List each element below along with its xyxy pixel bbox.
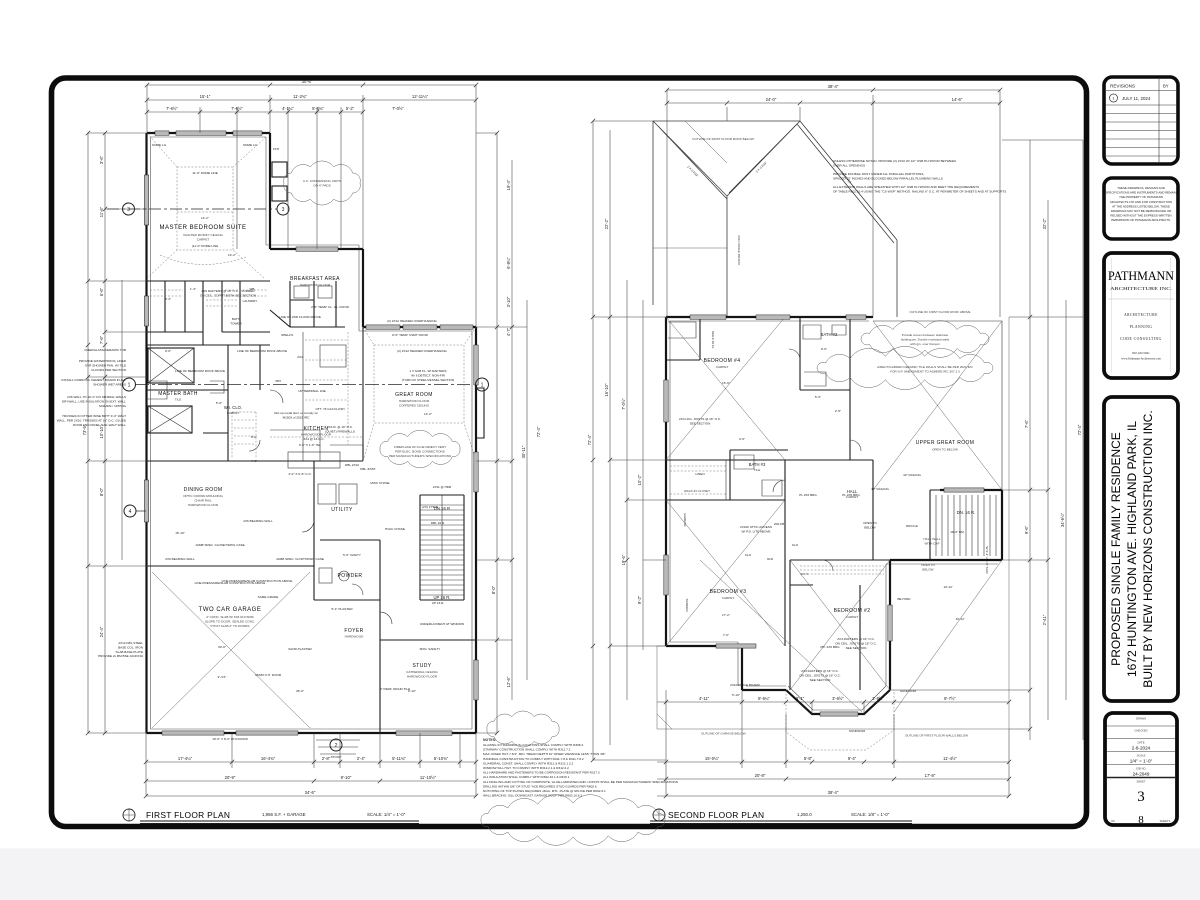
- partition foyer right study left: [379, 540, 381, 733]
- svg-text:FIRST FLOOR PLAN: FIRST FLOOR PLAN: [146, 810, 230, 820]
- svg-text:COFFERED CEILING: COFFERED CEILING: [399, 404, 430, 408]
- svg-text:14'-2": 14'-2": [424, 412, 432, 416]
- svg-text:JAMB SPEC. CLOSET/DWG CASE: JAMB SPEC. CLOSET/DWG CASE: [195, 543, 244, 547]
- svg-text:OUTLINE OF FIRST FLOOR ROOF BE: OUTLINE OF FIRST FLOOR ROOF BELOW: [692, 137, 754, 141]
- svg-text:3: 3: [282, 207, 285, 213]
- svg-text:WINDOW SILL HGT. TO COMPLY WIT: WINDOW SILL HGT. TO COMPLY WITH R312.2.1…: [483, 766, 569, 770]
- svg-text:9'-10": 9'-10": [341, 775, 352, 780]
- svg-text:UP 16 R.: UP 16 R.: [434, 595, 451, 600]
- svg-text:DBL 16 R.: DBL 16 R.: [431, 521, 445, 525]
- svg-text:WALK IN CL: WALK IN CL: [711, 331, 715, 349]
- svg-text:SUNROOM: SUNROOM: [849, 729, 866, 733]
- svg-text:FFH: FFH: [273, 147, 279, 151]
- svg-text:11'-6": 11'-6": [99, 206, 104, 217]
- svg-text:STOOP: STOOP: [331, 755, 342, 759]
- svg-text:with grs. over thereon: with grs. over thereon: [910, 342, 940, 346]
- svg-text:8'-0": 8'-0": [251, 435, 257, 439]
- svg-text:BATH #2: BATH #2: [821, 332, 838, 337]
- svg-text:30'-6": 30'-6": [302, 79, 313, 84]
- partition garage top: [147, 565, 315, 567]
- stair treads dn: [936, 495, 996, 556]
- svg-text:4'-1¼": 4'-1¼": [282, 106, 294, 111]
- svg-text:HALF WALL: HALF WALL: [923, 537, 940, 541]
- svg-text:72'-4": 72'-4": [587, 434, 592, 445]
- svg-text:8'-6¼": 8'-6¼": [758, 696, 770, 701]
- svg-text:WALK-IN CLOSET: WALK-IN CLOSET: [684, 489, 710, 493]
- svg-text:7'-0½": 7'-0½": [621, 398, 626, 410]
- svg-text:5'-2": 5'-2": [346, 106, 355, 111]
- svg-text:TILE: TILE: [754, 468, 761, 472]
- svg-text:24-2049: 24-2049: [1133, 772, 1150, 777]
- svg-text:19'-4": 19'-4": [506, 179, 511, 190]
- dims left: [587, 121, 666, 760]
- svg-text:BATH #3: BATH #3: [749, 462, 766, 467]
- svg-text:(2) 2X12 HEADER OVERHANGING: (2) 2X12 HEADER OVERHANGING: [387, 319, 437, 323]
- svg-text:UNLESS OTHERWISE NOTED, PROVID: UNLESS OTHERWISE NOTED, PROVIDE (2) 2X10…: [833, 159, 956, 163]
- svg-text:(TURN 2X STEEL/VESSEL SECTION: (TURN 2X STEEL/VESSEL SECTION: [402, 378, 454, 382]
- svg-text:SAME GRADE: SAME GRADE: [258, 595, 279, 599]
- svg-text:OF TABLE R602.10.4 USING THE ": OF TABLE R602.10.4 USING THE "CS-WSP" ME…: [833, 190, 1006, 194]
- svg-text:2X4 RAFTERS @ 16" O.C.: 2X4 RAFTERS @ 16" O.C.: [801, 669, 839, 673]
- svg-text:2X6 RAFTERS @ 16" O.C. - FURRE: 2X6 RAFTERS @ 16" O.C. - FURRED: [201, 289, 255, 293]
- architect logo box: [1104, 253, 1178, 378]
- section marker 4: [124, 505, 146, 517]
- svg-text:20'-8": 20'-8": [755, 773, 766, 778]
- svg-text:OPEN TO BELOW: OPEN TO BELOW: [932, 448, 958, 452]
- svg-text:WB: WB: [250, 287, 255, 291]
- svg-text:SPACED 12" INCHES AND BLOCKED: SPACED 12" INCHES AND BLOCKED BELOW PARA…: [833, 177, 943, 181]
- svg-text:SCREEN: SCREEN: [685, 599, 689, 612]
- svg-text:BELOW: BELOW: [922, 567, 933, 571]
- exterior wall right: [475, 327, 477, 733]
- great room coffered dashed: [363, 327, 476, 461]
- svg-text:PLANNING: PLANNING: [1130, 325, 1153, 329]
- svg-text:PROVIDE WATERPROOF, LINED: PROVIDE WATERPROOF, LINED: [79, 359, 127, 363]
- svg-text:SLOPE TO DOOR, SEALED CONC.: SLOPE TO DOOR, SEALED CONC.: [205, 619, 255, 623]
- svg-text:ON CEIL. JOISTS @ 16" O.C.: ON CEIL. JOISTS @ 16" O.C.: [799, 673, 841, 677]
- svg-text:ALL HARDWARE AND FASTENERS TO: ALL HARDWARE AND FASTENERS TO BE CORROSI…: [483, 771, 600, 775]
- svg-text:SUNROOM: SUNROOM: [900, 689, 917, 693]
- door arcs: [249, 390, 392, 624]
- svg-text:24'-0": 24'-0": [766, 97, 777, 102]
- svg-text:11'-2¾": 11'-2¾": [293, 94, 307, 99]
- svg-text:OUTLINE OF GARAGE BELOW: OUTLINE OF GARAGE BELOW: [701, 732, 746, 736]
- svg-text:CATHEDRAL CEILING: CATHEDRAL CEILING: [406, 670, 438, 674]
- svg-text:SOME LG: SOME LG: [152, 143, 167, 147]
- svg-text:3'-10": 3'-10": [506, 296, 511, 307]
- svg-text:1,956 S.F. + GARAGE: 1,956 S.F. + GARAGE: [262, 812, 306, 817]
- svg-text:8'-0": 8'-0": [99, 487, 104, 496]
- svg-text:ALL EXTERIOR WALLS ARE SHEATHE: ALL EXTERIOR WALLS ARE SHEATHED WITH 1/2…: [833, 185, 979, 189]
- bath fixtures: [803, 325, 846, 386]
- copyright note box: [1104, 178, 1178, 239]
- svg-text:10'-10": 10'-10": [99, 425, 104, 439]
- partition master bath top: [147, 345, 270, 390]
- svg-text:3'-1": 3'-1": [796, 696, 805, 701]
- svg-text:38'-4": 38'-4": [828, 84, 839, 89]
- svg-text:holding per. Dundie municipal: holding per. Dundie municipal walls: [901, 337, 950, 341]
- svg-text:UTILITY: UTILITY: [331, 507, 353, 513]
- svg-text:BUILT BY NEW HORIZONS CONSTRUC: BUILT BY NEW HORIZONS CONSTRUCTION INC.: [1141, 410, 1155, 687]
- svg-text:17'-4¼": 17'-4¼": [178, 756, 193, 761]
- svg-text:9'-4.5": 9'-4.5": [218, 675, 227, 679]
- svg-text:NOTES:: NOTES:: [483, 738, 496, 742]
- svg-text:9'-0": 9'-0": [165, 349, 171, 353]
- exterior wall bottom: [147, 732, 477, 734]
- svg-text:3'-0" X 1'-6" ISL.: 3'-0" X 1'-6" ISL.: [299, 443, 322, 447]
- svg-text:EGRESS: EGRESS: [683, 514, 687, 527]
- svg-text:MXD. SAFETY: MXD. SAFETY: [420, 647, 441, 651]
- kitchen island: [288, 452, 340, 468]
- svg-text:SCALE: 1/4" = 1'-0": SCALE: 1/4" = 1'-0": [367, 812, 406, 817]
- revisions table: [1104, 77, 1178, 164]
- svg-text:10'-12': 10'-12': [955, 617, 965, 621]
- svg-text:BREAKFAST AREA: BREAKFAST AREA: [290, 276, 340, 282]
- svg-text:5'-10": 5'-10": [732, 693, 740, 697]
- bottom bay outline dashed: [786, 690, 894, 750]
- dims bottom: [657, 690, 1009, 796]
- svg-text:72'-4": 72'-4": [1077, 424, 1082, 435]
- dims top: [667, 84, 1000, 317]
- svg-text:BELOW: BELOW: [864, 525, 875, 529]
- svg-text:GLAZING IN HAZARDOUS LOCATIONS: GLAZING IN HAZARDOUS LOCATIONS SHALL COM…: [483, 743, 583, 747]
- dimension tick marks: [86, 83, 1050, 798]
- svg-text:UP 16 R.: UP 16 R.: [432, 601, 445, 605]
- exterior wall left: [145, 133, 147, 733]
- svg-text:30'-11": 30'-11": [521, 445, 526, 458]
- leader notes right of bath: [679, 331, 989, 733]
- svg-text:2X10 RIDGE BOARD: 2X10 RIDGE BOARD: [730, 683, 761, 687]
- front door + stoop: [322, 732, 354, 734]
- svg-text:22'-2": 22'-2": [604, 218, 609, 229]
- svg-text:A/RECT/GARDEN CERAMIC TILE WAL: A/RECT/GARDEN CERAMIC TILE WALLS SHALL B…: [877, 365, 974, 369]
- svg-text:2X10F ATTIC ACCESS: 2X10F ATTIC ACCESS: [740, 525, 772, 529]
- svg-text:PROVIDE 2L BM BSE JACKING: PROVIDE 2L BM BSE JACKING: [98, 654, 144, 658]
- stair treads: [420, 505, 464, 595]
- svg-text:LINEN: LINEN: [695, 472, 704, 476]
- svg-text:PITCH SLAB 2" TO DOORS: PITCH SLAB 2" TO DOORS: [211, 624, 250, 628]
- garage doors: [162, 731, 224, 735]
- inner wall line: [670, 321, 998, 710]
- svg-text:NOTCHING OF TOP PLATES REQUIRE: NOTCHING OF TOP PLATES REQUIRES 16GA. MT…: [483, 789, 606, 793]
- svg-text:10'-12': 10'-12': [943, 585, 953, 589]
- svg-text:6'-8¼": 6'-8¼": [506, 257, 511, 269]
- kitchen counters: [270, 332, 363, 461]
- margin note garage left: [98, 641, 144, 658]
- svg-text:CARPET: CARPET: [716, 365, 729, 369]
- svg-text:LAUNDRY: LAUNDRY: [243, 299, 258, 303]
- svg-text:24'-4": 24'-4": [99, 626, 104, 637]
- svg-text:DRAWN: DRAWN: [1136, 717, 1146, 721]
- svg-text:2: 2: [335, 743, 338, 749]
- svg-text:9'-6": 9'-6": [1024, 525, 1029, 534]
- svg-text:18'-0" BM: 18'-0" BM: [950, 530, 964, 534]
- svg-text:200-FB: 200-FB: [774, 522, 784, 526]
- svg-text:BASE COL. IRON: BASE COL. IRON: [118, 645, 143, 649]
- svg-text:2X6 WALL TO 10'-0" FIX MINIMAL: 2X6 WALL TO 10'-0" FIX MINIMAL WALLS: [67, 395, 126, 399]
- svg-text:7'-6": 7'-6": [1024, 419, 1029, 428]
- svg-text:GUARDRAIL CONST. SHALL COMPLY: GUARDRAIL CONST. SHALL COMPLY WITH R312 …: [483, 761, 574, 765]
- svg-text:INSTALL DURROCK CEMENT BOARD I: INSTALL DURROCK CEMENT BOARD IN ALL: [61, 378, 126, 382]
- svg-text:ON 4" PADS: ON 4" PADS: [313, 183, 330, 187]
- svg-text:FIREPLACE W/ FLUE DIRECT VENT: FIREPLACE W/ FLUE DIRECT VENT: [394, 445, 446, 449]
- svg-text:DRYWALL, USE INSULATION ON EXT: DRYWALL, USE INSULATION ON EXT. WALL: [62, 399, 126, 403]
- svg-text:8'-0": 8'-0": [491, 585, 496, 594]
- svg-text:14'-2": 14'-2": [201, 216, 209, 220]
- svg-text:38'-4": 38'-4": [828, 790, 839, 795]
- margin notes left: [57, 348, 127, 427]
- svg-text:UP TERMINAL LNE: UP TERMINAL LNE: [298, 389, 325, 393]
- svg-text:ALL INSULATION SHALL COMPLY WI: ALL INSULATION SHALL COMPLY WITH R302.10…: [483, 775, 570, 779]
- svg-text:STUDY: STUDY: [413, 663, 432, 669]
- svg-text:10'-0" X 8'-0" OH DOORS: 10'-0" X 8'-0" OH DOORS: [212, 737, 248, 741]
- svg-text:(2) 2X12 HEADER OVERHANGING: (2) 2X12 HEADER OVERHANGING: [397, 349, 447, 353]
- svg-text:REUSED WITHOUT THE EXPRESS WRI: REUSED WITHOUT THE EXPRESS WRITTEN: [1110, 214, 1171, 218]
- svg-text:FOR H.P. AMENDMENT TO ADHERE I: FOR H.P. AMENDMENT TO ADHERE IRC 307.2.3: [890, 369, 960, 373]
- svg-text:4'-6": 4'-6": [739, 437, 745, 441]
- svg-text:HARDWOOD FLOOR: HARDWOOD FLOOR: [300, 283, 331, 287]
- svg-text:CARPET: CARPET: [227, 411, 240, 415]
- svg-text:2X4 R. @ 16" O.C.: 2X4 R. @ 16" O.C.: [327, 425, 353, 429]
- svg-text:2X6 BEARING WALL: 2X6 BEARING WALL: [165, 557, 195, 561]
- svg-text:DBL JOIST: DBL JOIST: [360, 467, 376, 471]
- svg-text:JOB NO.: JOB NO.: [1136, 767, 1147, 771]
- svg-text:3'-6": 3'-6": [99, 155, 104, 164]
- svg-text:4: 4: [129, 509, 132, 515]
- svg-text:CARPET: CARPET: [722, 596, 735, 600]
- utility appliances: [318, 484, 336, 504]
- svg-text:1 X SUB FL. W/ RAFTERS: 1 X SUB FL. W/ RAFTERS: [409, 369, 446, 373]
- svg-text:34'-6½": 34'-6½": [1060, 512, 1065, 527]
- svg-text:9'-2": 9'-2": [637, 595, 642, 604]
- svg-text:ALL DRILLING AND CUTTING OF CO: ALL DRILLING AND CUTTING OF COMPOSITE, G…: [483, 780, 678, 784]
- svg-text:UNDERLAYMENT AT WINDOW: UNDERLAYMENT AT WINDOW: [420, 622, 464, 626]
- exterior wall breakfast top: [270, 248, 363, 250]
- dimension lines left: [82, 133, 147, 733]
- svg-text:OVR SHOWER PAN. W/ TILE: OVR SHOWER PAN. W/ TILE: [85, 363, 126, 367]
- exterior wall great room top: [363, 326, 476, 328]
- first floor plan title: [123, 809, 419, 823]
- svg-text:36H: 36H: [275, 379, 281, 383]
- svg-text:A.C. CONDENSING UNITS: A.C. CONDENSING UNITS: [303, 179, 341, 183]
- laundry chute small rooms: [290, 281, 345, 327]
- partition kitchen/greatroom: [362, 327, 364, 461]
- svg-text:4" CONC. SLAB W/ 6X6 #10 WWF: 4" CONC. SLAB W/ 6X6 #10 WWF: [206, 615, 254, 619]
- svg-text:2X11 @ HDR: 2X11 @ HDR: [433, 485, 452, 489]
- svg-text:CLO: CLO: [792, 543, 799, 547]
- svg-text:MAX. RISER HGT 7 3/4", MIN. TR: MAX. RISER HGT 7 3/4", MIN. TREAD DEPTH …: [483, 752, 606, 756]
- svg-text:OLD: OLD: [767, 557, 774, 561]
- svg-text:15'-10": 15'-10": [175, 531, 185, 535]
- master tray ceiling dashed: [147, 133, 266, 278]
- powder fixtures: [319, 568, 332, 583]
- svg-text:7'-6": 7'-6": [99, 335, 104, 344]
- exterior wall top master suite: [147, 132, 270, 134]
- svg-text:SHELFS: SHELFS: [281, 333, 293, 337]
- exterior walls: [666, 316, 873, 318]
- svg-text:5'-0": 5'-0": [815, 395, 821, 399]
- svg-text:ON CEIL. SOFFIT BOTH SEE SECTI: ON CEIL. SOFFIT BOTH SEE SECTION: [200, 293, 256, 297]
- svg-text:4'-11": 4'-11": [699, 696, 710, 701]
- upper great room floor-edge thin rect: [873, 321, 1002, 490]
- roof hip long diagonal: [797, 121, 897, 317]
- svg-text:42" RAILING: 42" RAILING: [903, 473, 921, 477]
- svg-text:42" RAILING: 42" RAILING: [871, 487, 889, 491]
- svg-text:W 9'-4" x 6'-8" SLID: W 9'-4" x 6'-8" SLID: [985, 546, 989, 574]
- svg-text:1672 HUNTINGTON AVE. HIGHLAND: 1672 HUNTINGTON AVE. HIGHLAND PARK, IL: [1125, 421, 1139, 677]
- svg-text:2X4 @ 16 O.C.: 2X4 @ 16 O.C.: [303, 437, 324, 441]
- svg-text:WALL BRACING: SILL-DOWNCAST GA: WALL BRACING: SILL-DOWNCAST GARAGE DOOF …: [483, 794, 582, 798]
- svg-text:BEDROOM #2: BEDROOM #2: [834, 608, 871, 614]
- svg-text:3'-8½": 3'-8½": [872, 696, 884, 701]
- svg-text:www.Pathmann-Architecture.com: www.Pathmann-Architecture.com: [1121, 357, 1161, 361]
- svg-text:CODE CONSULTING: CODE CONSULTING: [1120, 337, 1162, 341]
- svg-text:TRUSSES IN OTHER WISE BUTT 4'-: TRUSSES IN OTHER WISE BUTT 4'-0" WALT: [62, 414, 126, 418]
- svg-text:PROPOSED SINGLE FAMILY RESIDEN: PROPOSED SINGLE FAMILY RESIDENCE: [1109, 432, 1123, 666]
- door arcs: [773, 349, 861, 571]
- pantry angle: [270, 310, 290, 327]
- svg-text:5'-10¾": 5'-10¾": [434, 756, 449, 761]
- svg-text:5'-11¾": 5'-11¾": [392, 756, 406, 761]
- svg-text:5'-9": 5'-9": [216, 401, 222, 405]
- svg-text:1: 1: [128, 383, 131, 389]
- svg-text:3'-0" X 6'-8" C.O.: 3'-0" X 6'-8" C.O.: [288, 472, 311, 476]
- outline of first floor walls below (right): [657, 317, 1009, 729]
- svg-text:TOWER: TOWER: [230, 321, 242, 325]
- svg-text:2X4: 2X4: [297, 355, 303, 359]
- svg-text:SAND PLASTER: SAND PLASTER: [288, 647, 312, 651]
- svg-text:JULY 11, 2024: JULY 11, 2024: [1122, 96, 1151, 101]
- stair rail: [441, 495, 443, 600]
- svg-text:4" PERF. DRAIN TILE: 4" PERF. DRAIN TILE: [380, 687, 410, 691]
- svg-text:2X4 RAFTERS @ 16" O.C.: 2X4 RAFTERS @ 16" O.C.: [837, 637, 875, 641]
- partition dining top: [147, 460, 364, 462]
- dimension lines bottom: [146, 733, 476, 796]
- svg-text:(2X) 2 HDR: (2X) 2 HDR: [422, 505, 439, 509]
- section markers 3: [107, 203, 289, 215]
- svg-text:HARDWOOD: HARDWOOD: [345, 635, 364, 639]
- sheet data box: [1105, 713, 1177, 826]
- svg-text:DRAWINGS MAY NOT BE REPRODUCED: DRAWINGS MAY NOT BE REPRODUCED OR: [1111, 209, 1172, 213]
- svg-text:SEE SECTION: SEE SECTION: [846, 646, 867, 650]
- framing notes top right: [833, 159, 1006, 194]
- svg-text:FOYER: FOYER: [344, 628, 363, 634]
- inner wall lines (double-line look): [151, 137, 473, 729]
- svg-text:WALL, PER 2X10. TRUSSES AT 16": WALL, PER 2X10. TRUSSES AT 16" O.C. GLUE…: [57, 418, 127, 422]
- svg-text:AT THE ADDRESS LISTED BELOW. T: AT THE ADDRESS LISTED BELOW. THESE: [1112, 204, 1170, 208]
- svg-text:14'-6": 14'-6": [952, 97, 963, 102]
- dimension lines right: [476, 133, 541, 733]
- dimension lines top: [147, 79, 476, 327]
- svg-text:1: 1: [481, 383, 484, 389]
- svg-text:POWDER: POWDER: [338, 573, 363, 579]
- svg-text:ARCHITECTURE: ARCHITECTURE: [1124, 313, 1158, 317]
- svg-text:2'-4": 2'-4": [357, 756, 366, 761]
- svg-text:OUTLINE OF FIRST FLOOR ROOF AB: OUTLINE OF FIRST FLOOR ROOF ABOVE: [910, 310, 971, 314]
- svg-text:CARPET: CARPET: [846, 615, 859, 619]
- svg-text:16'-10": 16'-10": [604, 383, 609, 397]
- roof hip V lines: [653, 121, 800, 317]
- svg-text:11'-4½": 11'-4½": [943, 756, 957, 761]
- kitchen cabinets dashed: [270, 332, 363, 445]
- svg-text:19'-6": 19'-6": [621, 554, 626, 565]
- svg-text:LINE PRESSURE/SLAB CONSTRUCTIO: LINE PRESSURE/SLAB CONSTRUCTION ABOVE: [195, 581, 266, 585]
- svg-text:16'-6": 16'-6": [722, 381, 730, 385]
- svg-text:9'-4": 9'-4": [848, 756, 857, 761]
- svg-text:THESE DRAWINGS, DESIGNS AND: THESE DRAWINGS, DESIGNS AND: [1117, 186, 1165, 190]
- svg-text:OPTIC CROWN MOULDING: OPTIC CROWN MOULDING: [183, 494, 223, 498]
- svg-text:12'-11¼": 12'-11¼": [412, 94, 429, 99]
- svg-text:PR. 2X6 BRG: PR. 2X6 BRG: [820, 645, 840, 649]
- windows: [233, 131, 262, 135]
- svg-text:11'-10½": 11'-10½": [420, 775, 437, 780]
- svg-text:BY: BY: [1163, 84, 1169, 89]
- svg-text:DN. 16 R.: DN. 16 R.: [957, 510, 975, 515]
- svg-text:MISC CHASE: MISC CHASE: [370, 481, 389, 485]
- svg-text:2-8-2024: 2-8-2024: [1132, 746, 1151, 751]
- svg-text:17'-2": 17'-2": [722, 613, 730, 617]
- svg-text:W/ P.D. LITE ABOVE: W/ P.D. LITE ABOVE: [742, 529, 771, 533]
- svg-text:5'-0" VANITY: 5'-0" VANITY: [343, 553, 361, 557]
- svg-text:PER ELEC. BOND CONNECTIONS: PER ELEC. BOND CONNECTIONS: [395, 449, 445, 453]
- exterior wall breakfast right: [362, 249, 364, 327]
- svg-text:2X6 BEARING WALL: 2X6 BEARING WALL: [243, 519, 273, 523]
- windows second floor: [690, 315, 726, 319]
- svg-text:16'-4¾": 16'-4¾": [261, 756, 276, 761]
- svg-text:Ret-up metal duct. to comply w: Ret-up metal duct. to comply w/: [274, 411, 317, 415]
- wic shelving dashed: [232, 412, 256, 458]
- svg-text:SEE SECTION: SEE SECTION: [810, 678, 831, 682]
- svg-text:SCALE: SCALE: [1137, 754, 1146, 758]
- svg-text:SCALE: 1/8" = 1'-0": SCALE: 1/8" = 1'-0": [851, 812, 890, 817]
- svg-text:8: 8: [1138, 814, 1144, 826]
- svg-text:STAIRWAY CONSTRUCTION SHALL CO: STAIRWAY CONSTRUCTION SHALL COMPLY WITH …: [483, 748, 571, 752]
- partition suite bottom: [147, 280, 270, 282]
- svg-text:Provide screen between stairca: Provide screen between staircase: [902, 333, 949, 337]
- svg-text:CLO: CLO: [745, 553, 752, 557]
- svg-text:OF: OF: [1111, 819, 1115, 823]
- svg-text:CHAIR RAIL: CHAIR RAIL: [194, 498, 212, 502]
- partition wic walls: [203, 345, 260, 461]
- svg-text:LINE OF BEDROOM ROOF ABOVE: LINE OF BEDROOM ROOF ABOVE: [237, 349, 287, 353]
- svg-text:36X80 O.H. DOOR: 36X80 O.H. DOOR: [255, 673, 282, 677]
- svg-text:72'-4": 72'-4": [536, 426, 541, 437]
- page gray footer band: [0, 849, 1200, 900]
- svg-text:SOME LG: SOME LG: [243, 143, 258, 147]
- svg-text:JAMB SPEC. CL/SHT/DWG CASE: JAMB SPEC. CL/SHT/DWG CASE: [276, 557, 324, 561]
- dims right: [890, 140, 1083, 740]
- svg-text:SHEETS: SHEETS: [1160, 819, 1171, 823]
- svg-text:BEDROOM #3: BEDROOM #3: [710, 589, 747, 595]
- svg-text:DINING ROOM: DINING ROOM: [184, 487, 223, 493]
- project name box (vertical text): [1104, 397, 1178, 701]
- svg-text:PL 2X6 BRG: PL 2X6 BRG: [842, 493, 860, 497]
- svg-text:1/4" = 1'-0": 1/4" = 1'-0": [1130, 759, 1153, 764]
- svg-text:2'-8": 2'-8": [322, 756, 331, 761]
- section marker 2: [330, 739, 342, 751]
- svg-text:11'-0" DOME LINE: 11'-0" DOME LINE: [192, 171, 218, 175]
- svg-text:PATHMANN: PATHMANN: [1108, 269, 1174, 283]
- svg-text:PER MANUFACTURER'S SPECIFICATI: PER MANUFACTURER'S SPECIFICATIONS: [389, 454, 451, 458]
- svg-text:WITH CAP: WITH CAP: [924, 541, 939, 545]
- svg-text:UPPER GREAT ROOM: UPPER GREAT ROOM: [916, 440, 975, 446]
- hall/stair half wall: [873, 460, 940, 560]
- svg-text:12'-6": 12'-6": [506, 676, 511, 687]
- svg-text:MASTER BATH: MASTER BATH: [158, 391, 198, 397]
- svg-text:CHECKED: CHECKED: [1134, 729, 1147, 733]
- svg-text:BRIDGE: BRIDGE: [906, 524, 918, 528]
- svg-text:6'-6": 6'-6": [99, 287, 104, 296]
